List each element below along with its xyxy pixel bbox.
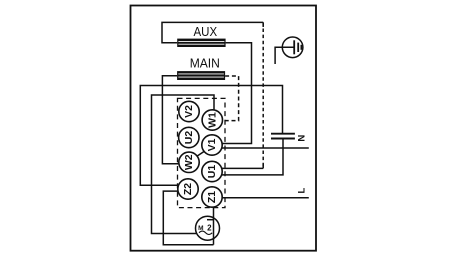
wire MAIN right lead to W1 (dashed): [222, 76, 238, 121]
svg-text:W2: W2: [183, 154, 195, 170]
terminal U1: [202, 161, 222, 181]
svg-text:Z1: Z1: [206, 191, 218, 203]
wire AUX loop right vertical solid ends: [262, 22, 264, 27]
terminal V1: [202, 135, 222, 155]
terminal U2: [179, 127, 199, 147]
terminal box outer border: [131, 6, 317, 251]
capacitor C: [271, 134, 295, 139]
svg-text:U2: U2: [183, 131, 195, 145]
wire capacitor top to Z2 (long loop): [140, 86, 282, 186]
svg-text:AUX: AUX: [194, 24, 218, 39]
wire capacitor bottom to U1: [221, 138, 283, 175]
wire U1 to AUX loop: [222, 167, 263, 169]
svg-text:N: N: [297, 135, 308, 142]
wire MAIN left lead down to W2: [162, 76, 179, 164]
thermal switch tick in motor: [207, 219, 214, 221]
wire W1 top to motor left: [152, 95, 215, 234]
svg-text:U1: U1: [206, 165, 218, 179]
terminal V2: [179, 101, 199, 121]
wire AUX loop right vertical (dashed) to U1: [262, 22, 264, 168]
dashed terminal board outline: [178, 98, 226, 207]
svg-text:W1: W1: [206, 112, 218, 128]
wire motor bottom to Z2: [163, 191, 213, 245]
wire AUX left lead: [162, 22, 263, 42]
wire AUX right lead to V1: [222, 43, 252, 144]
MAIN winding bar: [177, 71, 225, 80]
svg-text:V2: V2: [183, 105, 195, 118]
terminal W1: [202, 110, 222, 130]
svg-text:MAIN: MAIN: [190, 56, 220, 71]
wire Z1 through motor to bottom: [213, 207, 215, 244]
wire N supply: [222, 147, 309, 149]
motor M: [196, 216, 220, 240]
svg-text:L: L: [297, 188, 308, 194]
svg-text:V1: V1: [206, 138, 218, 151]
jumper W2 to V1: [196, 151, 204, 156]
terminal W2: [179, 152, 199, 172]
terminal Z1: [202, 187, 222, 207]
terminal Z2: [178, 179, 198, 199]
ground symbol: [275, 37, 303, 64]
svg-text:2: 2: [207, 224, 212, 233]
wire L supply: [222, 197, 309, 199]
AUX winding bar: [177, 39, 225, 47]
svg-text:Z2: Z2: [182, 183, 194, 195]
